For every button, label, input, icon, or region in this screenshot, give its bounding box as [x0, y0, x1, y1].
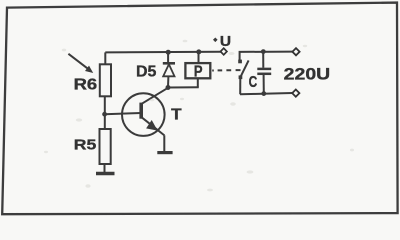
relay coil P box — [185, 63, 210, 78]
transistor base bar — [139, 103, 143, 119]
node dot contact top — [238, 60, 242, 64]
relay contact blade — [240, 60, 249, 78]
wire bottom right — [240, 93, 292, 94]
diode D5 triangle — [163, 64, 174, 76]
svg-text:T: T — [171, 106, 182, 123]
wire collector — [141, 88, 168, 105]
node dot base junction — [102, 112, 107, 117]
node dot rail D5 — [166, 50, 171, 55]
wire R6 top lead — [104, 52, 106, 64]
wire emitter vertical — [163, 135, 165, 152]
node dot collector junction — [166, 85, 171, 90]
wire top rail — [105, 51, 221, 54]
node dot cap top — [261, 49, 266, 54]
svg-text:220U: 220U — [284, 65, 331, 84]
wire base — [105, 113, 141, 114]
diode D5 top lead — [167, 52, 169, 63]
wire contact bottom lead — [239, 77, 241, 94]
node dot rail P — [196, 49, 201, 54]
ground (emitter) — [157, 151, 172, 154]
svg-text:D5: D5 — [136, 63, 157, 80]
svg-text:R6: R6 — [74, 77, 98, 94]
bullet of U label — [213, 38, 218, 43]
emitter arrowhead — [146, 120, 158, 131]
node dot cap bottom — [261, 91, 266, 96]
terminal diamond U — [221, 48, 227, 55]
wire R5 bottom lead — [104, 164, 106, 173]
wire R6-R5 — [104, 96, 106, 129]
svg-text:C: C — [249, 74, 258, 91]
ground (below R5) — [96, 172, 115, 175]
svg-text:P: P — [194, 64, 203, 81]
wire contact top — [240, 52, 293, 62]
wire emitter diagonal — [141, 117, 164, 136]
capacitor C bottom lead — [263, 75, 265, 94]
resistor R5 — [100, 129, 111, 164]
dashed link P to contact — [212, 69, 240, 71]
diode D5 bottom lead — [167, 76, 169, 87]
capacitor C top lead — [262, 52, 264, 68]
arrow (R6 variable) — [68, 54, 88, 69]
terminal diamond right top — [292, 48, 299, 55]
resistor R6 — [100, 64, 111, 96]
transistor T circle — [122, 93, 165, 136]
node dot contact bottom — [239, 75, 243, 79]
wire bottom mid — [168, 86, 199, 88]
terminal diamond right bottom — [292, 90, 299, 97]
svg-text:R5: R5 — [74, 137, 97, 154]
arrowhead of R6 arrow — [85, 66, 93, 73]
wire P bottom lead — [197, 78, 199, 87]
diode D5 cathode bar — [163, 62, 175, 65]
capacitor C plates — [257, 68, 271, 71]
svg-text:U: U — [220, 34, 231, 50]
wire P top lead — [198, 52, 200, 63]
